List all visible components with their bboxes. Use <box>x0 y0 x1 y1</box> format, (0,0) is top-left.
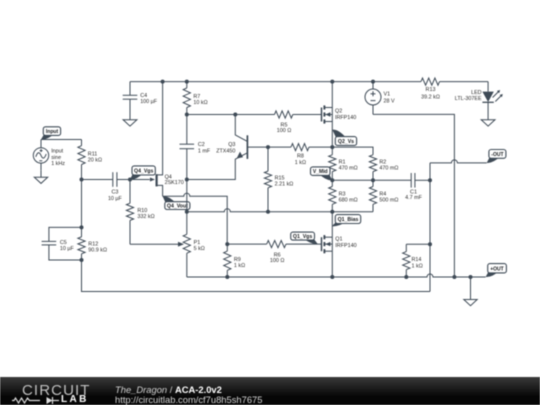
svg-text:V1: V1 <box>384 92 391 98</box>
wire R11 bottom to R12 <box>81 180 83 228</box>
svg-text:C4: C4 <box>140 93 147 99</box>
svg-text:LTL-307EE: LTL-307EE <box>455 96 482 102</box>
footer url <box>115 394 262 405</box>
CircuitLab logo wordmark <box>22 382 91 399</box>
svg-text:100 µF: 100 µF <box>140 99 158 105</box>
svg-text:1 mF: 1 mF <box>198 149 211 155</box>
wire ground rail <box>187 274 486 277</box>
svg-text:5 kΩ: 5 kΩ <box>194 246 205 252</box>
footer title <box>115 384 222 395</box>
svg-text:10 µF: 10 µF <box>108 196 123 202</box>
svg-text:Q2_Vs: Q2_Vs <box>338 139 354 145</box>
svg-text:1 kΩ: 1 kΩ <box>295 160 306 166</box>
svg-text:Q2: Q2 <box>335 109 342 115</box>
svg-text:Q1_Vgs: Q1_Vgs <box>293 234 312 240</box>
label R6 <box>270 252 285 264</box>
wire R9 to R6 <box>227 243 266 245</box>
svg-text:20 kΩ: 20 kΩ <box>88 157 102 163</box>
transistor Q4 2SK170 <box>157 82 163 197</box>
flag Q2_Vs <box>332 130 356 146</box>
label R14 <box>412 257 423 269</box>
label Q3 <box>216 142 235 154</box>
resistor R11 <box>78 140 85 180</box>
svg-text:100 Ω: 100 Ω <box>277 128 292 134</box>
voltage source input sine <box>33 140 48 171</box>
junction dots <box>80 178 84 182</box>
label LED <box>455 90 482 102</box>
wire input to R11 <box>41 139 82 141</box>
svg-text:10 kΩ: 10 kΩ <box>193 100 207 106</box>
svg-text:470 mΩ: 470 mΩ <box>379 166 398 172</box>
label R8 <box>295 154 306 166</box>
svg-text:Q4_Vout: Q4_Vout <box>167 204 188 210</box>
label R5 <box>277 123 292 135</box>
resistor R5 <box>275 111 293 118</box>
flag V_Mid <box>311 167 333 180</box>
voltage source V1 <box>365 82 381 115</box>
svg-text:sine: sine <box>51 155 61 161</box>
svg-text:R13: R13 <box>426 87 436 93</box>
label C3 <box>108 189 123 202</box>
wire Q3 base to R8 <box>268 146 291 148</box>
resistor R1 <box>329 147 336 180</box>
wire Q2_Vs to R2 top <box>332 147 373 155</box>
label R2 <box>379 160 398 172</box>
flag Q4_Vout <box>163 196 190 210</box>
flag +OUT <box>486 264 507 277</box>
flag Q4_Vgs <box>130 166 155 180</box>
wire R8 to Q2_Vs node <box>309 146 332 148</box>
label C2 <box>198 142 211 154</box>
resistor R12 <box>78 227 85 260</box>
label R15 <box>275 176 294 188</box>
svg-text:-OUT: -OUT <box>491 152 503 158</box>
resistor R3 <box>329 180 336 211</box>
label input source <box>51 149 65 167</box>
wire mid rail <box>187 209 373 212</box>
svg-text:90.9 kΩ: 90.9 kΩ <box>88 248 107 254</box>
svg-text:500 mΩ: 500 mΩ <box>379 198 398 204</box>
flag -OUT <box>487 150 506 163</box>
svg-text:V_Mid: V_Mid <box>313 169 328 175</box>
resistor R8 <box>291 144 309 151</box>
capacitor C2 <box>180 115 195 180</box>
svg-text:C3: C3 <box>111 189 118 195</box>
label C4 <box>140 93 158 105</box>
svg-text:28 V: 28 V <box>384 98 395 104</box>
footer bar <box>0 377 540 405</box>
ground below LED <box>481 120 495 126</box>
svg-text:10 µF: 10 µF <box>60 246 75 252</box>
svg-text:2SK170: 2SK170 <box>165 180 184 186</box>
resistor R13 <box>421 78 440 85</box>
resistor R10 <box>126 180 133 245</box>
label Q2 <box>335 109 356 122</box>
svg-text:470 mΩ: 470 mΩ <box>339 166 358 172</box>
label R1 <box>339 160 358 172</box>
label Q1 <box>335 236 356 249</box>
capacitor C5 <box>42 227 82 260</box>
label C5 <box>60 240 75 252</box>
transistor Q2 IRFP140 <box>322 105 333 123</box>
svg-text:Q1_Bias: Q1_Bias <box>338 217 359 223</box>
resistor R9 <box>224 244 231 277</box>
ground below input source <box>34 170 47 183</box>
wire to -OUT <box>430 160 487 163</box>
wire Q4 source to R9 column <box>163 193 228 244</box>
flag Q1_Vgs <box>291 232 318 244</box>
label Q4 <box>165 174 184 186</box>
transistor Q1 IRFP140 <box>322 235 333 253</box>
svg-text:4.7 mF: 4.7 mF <box>405 195 422 201</box>
svg-text:Q3: Q3 <box>228 142 235 148</box>
capacitor C4 <box>123 82 138 120</box>
ground near C4 <box>123 120 137 126</box>
label R3 <box>339 192 358 204</box>
wire R6 to Q1 gate <box>286 243 322 245</box>
svg-text:1 kΩ: 1 kΩ <box>234 263 245 269</box>
wire R14 top to C1 column <box>406 243 430 245</box>
svg-text:2.21 kΩ: 2.21 kΩ <box>275 182 294 188</box>
label R10 <box>137 208 154 220</box>
svg-text:+OUT: +OUT <box>490 266 503 272</box>
svg-text:Input: Input <box>46 129 59 135</box>
svg-text:Input: Input <box>51 149 63 155</box>
svg-text:C2: C2 <box>198 142 205 148</box>
svg-text:IRFP140: IRFP140 <box>335 243 356 249</box>
wire C2 to P1 <box>186 180 188 212</box>
wire R10 to P1 wiper <box>130 243 178 245</box>
resistor R2 <box>369 155 376 181</box>
svg-text:R14: R14 <box>412 257 422 263</box>
label R4 <box>379 192 398 204</box>
resistor R4 <box>369 180 376 211</box>
svg-text:P1: P1 <box>194 240 201 246</box>
svg-text:100 Ω: 100 Ω <box>270 258 285 264</box>
resistor R14 <box>403 244 410 277</box>
label R7 <box>193 94 207 106</box>
CircuitLab logo schematic motif <box>0 377 110 405</box>
wire Q4 gate <box>130 179 150 181</box>
capacitor C1 <box>373 173 430 188</box>
svg-text:Q4_Vgs: Q4_Vgs <box>134 169 153 175</box>
wire R5 to Q2 gate <box>293 114 322 116</box>
flag Input <box>41 127 61 140</box>
label R11 <box>88 151 102 163</box>
label R12 <box>88 242 107 254</box>
ground on output rail <box>464 277 477 306</box>
label P1 <box>194 240 205 252</box>
svg-text:680 mΩ: 680 mΩ <box>339 198 358 204</box>
label R9 <box>234 257 245 269</box>
label R13 <box>421 87 440 100</box>
wire V_Mid rail <box>332 179 373 181</box>
label V1 <box>384 92 395 105</box>
svg-text:1 kΩ: 1 kΩ <box>412 263 423 269</box>
wire R7 to R5 <box>187 114 275 116</box>
svg-text:R8: R8 <box>297 154 304 160</box>
svg-text:1 kHz: 1 kHz <box>51 161 65 167</box>
potentiometer P1 <box>183 212 190 277</box>
transistor Q3 ZTX450 <box>187 115 268 180</box>
wire R12 bottom to lower rail <box>82 260 431 292</box>
capacitor C3 <box>82 172 131 187</box>
svg-text:332 kΩ: 332 kΩ <box>137 214 154 220</box>
wire V1 minus to right column <box>373 114 454 277</box>
label C1 <box>405 189 422 201</box>
flag Q1_Bias <box>332 215 361 227</box>
svg-text:Q1: Q1 <box>335 236 342 242</box>
LED LTL-307EE <box>487 82 489 92</box>
resistor R7 <box>183 82 190 115</box>
svg-text:IRFP140: IRFP140 <box>335 115 356 121</box>
resistor R15 <box>264 147 271 212</box>
svg-text:ZTX450: ZTX450 <box>216 148 235 154</box>
wire C1 right column <box>429 163 431 292</box>
resistor R6 <box>267 241 286 248</box>
svg-text:39.2 kΩ: 39.2 kΩ <box>421 94 440 100</box>
wire top supply rail <box>130 81 421 83</box>
